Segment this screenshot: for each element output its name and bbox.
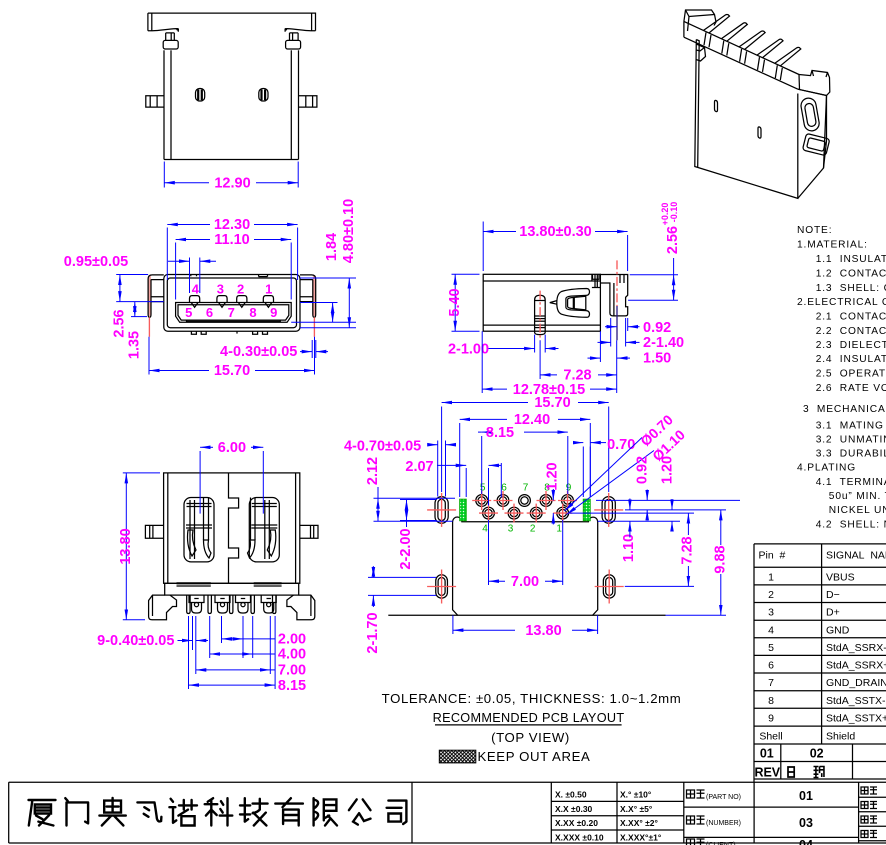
dimension 7.00 pcb [488, 520, 490, 585]
svg-text:2.2 CONTACT CURRENT: 1.8A MAX: 2.2 CONTACT CURRENT: 1.8A MAX. [816, 326, 886, 337]
svg-text:2.5 OPERATING TEMP.: -40°C~+8: 2.5 OPERATING TEMP.: -40°C~+85°C [816, 368, 886, 379]
side view: latch left beak [550, 301, 557, 305]
pcb layout: mounting oval top-right [602, 497, 615, 524]
svg-text:StdA_SSRX+: StdA_SSRX+ [826, 660, 886, 672]
dimension 15.70 bottom [148, 337, 150, 375]
bottom view: base plate [165, 583, 299, 595]
part number field lines [684, 806, 859, 808]
svg-text:4-0.30±0.05: 4-0.30±0.05 [220, 344, 297, 360]
svg-text:15.70: 15.70 [534, 395, 570, 411]
dimension 1.84 right [300, 302, 338, 304]
svg-text:6: 6 [768, 660, 774, 672]
svg-text:3 MECHANICAL PERFORMANCE:: 3 MECHANICAL PERFORMANCE: [803, 404, 886, 415]
bottom view: solder feet row [189, 595, 204, 602]
pcb layout: pin hole 5 [476, 495, 488, 507]
svg-text:9: 9 [566, 483, 572, 494]
right approval column lines [859, 796, 886, 798]
svg-text:4.80±0.10: 4.80±0.10 [341, 199, 357, 263]
side view: body outline [483, 274, 600, 331]
side view: crimp post [535, 295, 546, 334]
bottom view: right side tab [300, 525, 318, 538]
front view: left leg lower red segment [148, 317, 150, 337]
side view: latch spring loop mouth and cone [585, 295, 587, 310]
pcb layout: pin hole 9 [562, 495, 574, 507]
side view: post red centerline [539, 291, 541, 341]
dimension 2-1.70 [368, 576, 436, 578]
title block bottom border [9, 842, 886, 844]
top view: left latch block [163, 40, 178, 49]
svg-text:9.88: 9.88 [712, 545, 728, 573]
svg-text:6: 6 [501, 483, 507, 494]
svg-text:3.3 DURABILITY: 1500 CYCLES: 3.3 DURABILITY: 1500 CYCLES [816, 449, 886, 460]
dimension 6.00 [199, 451, 201, 514]
svg-text:4: 4 [482, 524, 488, 535]
isometric view 3d connector [684, 10, 830, 198]
svg-text:StdA_SSTX-: StdA_SSTX- [826, 695, 886, 707]
svg-text:7: 7 [228, 305, 235, 320]
bottom view: thin terminal pins [187, 595, 190, 613]
dimension 8.15 bottom view [188, 616, 190, 689]
front view: tongue outline [176, 303, 292, 323]
dimension 7.00 bottom view [195, 650, 197, 674]
svg-text:TOLERANCE: ±0.05, THICKNESS: 1: TOLERANCE: ±0.05, THICKNESS: 1.0~1.2mm [382, 691, 682, 706]
svg-text:X.X° ±5°: X.X° ±5° [620, 804, 653, 814]
svg-text:VBUS: VBUS [826, 572, 855, 584]
svg-text:-0.10: -0.10 [669, 202, 679, 223]
svg-text:X.XXX ±0.10: X.XXX ±0.10 [555, 832, 604, 842]
svg-text:3: 3 [217, 281, 224, 296]
front view: inner shell [167, 278, 296, 328]
side view: rear leg bracket [600, 275, 627, 316]
svg-text:2-1.00: 2-1.00 [448, 342, 489, 358]
pcb layout: mounting oval bottom-right [603, 575, 615, 598]
bottom view: right wing [287, 595, 315, 620]
svg-text:6.00: 6.00 [218, 440, 246, 456]
pcb layout: pin hole 4 [483, 507, 495, 519]
svg-text:7.00: 7.00 [511, 574, 539, 590]
front view: shell bottom feet notches [191, 331, 196, 334]
svg-text:D−: D− [826, 589, 840, 601]
front view: shell top small notches [259, 275, 268, 277]
bottom view: center seam [229, 473, 239, 583]
pcb layout: pin hole 8 [540, 495, 552, 507]
svg-text:Shield: Shield [826, 730, 855, 742]
dimension 12.90 extension lines [163, 162, 165, 188]
svg-text:2.1 CONTACT RESISTANCE: 30mΩ: 2.1 CONTACT RESISTANCE: 30mΩ MAX. [816, 312, 886, 323]
svg-text:7: 7 [768, 677, 774, 689]
svg-text:(NUMBER): (NUMBER) [706, 820, 741, 827]
bottom view: left side tab [145, 525, 163, 538]
svg-text:5: 5 [185, 305, 192, 320]
svg-text:5: 5 [480, 483, 486, 494]
svg-text:7.00: 7.00 [278, 663, 306, 679]
top view: right side tab [299, 96, 317, 107]
svg-text:2: 2 [237, 281, 244, 296]
dimension 4.80±0.10 right [300, 277, 356, 279]
svg-text:RECOMMENDED PCB LAYOUT: RECOMMENDED PCB LAYOUT [433, 711, 625, 725]
svg-text:1: 1 [265, 281, 272, 296]
tolerance table lines [551, 800, 684, 802]
svg-text:X.XXX°±1°: X.XXX°±1° [620, 832, 662, 842]
svg-text:8: 8 [249, 305, 256, 320]
dimension 2-1.00 [534, 335, 536, 353]
svg-text:REV: REV [754, 766, 780, 780]
svg-text:7.28: 7.28 [680, 536, 696, 564]
svg-text:5.40: 5.40 [447, 288, 463, 316]
pcb layout: keep-out hatch right [583, 499, 590, 521]
dimension 1.50 [599, 331, 601, 362]
company name xiamen aofeinuo technology co ltd [29, 798, 407, 826]
dimension 2-2.00 [400, 499, 437, 501]
svg-text:8: 8 [768, 695, 774, 707]
svg-text:13.80: 13.80 [118, 528, 134, 564]
svg-text:2: 2 [530, 524, 536, 535]
svg-text:2.3 DIELECTRIC WITHSTANDING:: 2.3 DIELECTRIC WITHSTANDING: AC 100V [816, 340, 886, 351]
top view: mounting flange bar [148, 13, 316, 31]
bottom view: left wing [149, 595, 177, 620]
dimension 1.35 left [131, 316, 147, 318]
pcb layout: footprint outline [453, 517, 598, 615]
svg-text:GND_DRAIN: GND_DRAIN [826, 677, 886, 689]
svg-text:4-0.70±0.05: 4-0.70±0.05 [344, 439, 421, 455]
svg-text:(TOP VIEW): (TOP VIEW) [491, 730, 570, 745]
top view: left side tab [146, 96, 164, 107]
svg-text:1.20: 1.20 [545, 462, 561, 490]
svg-text:9-0.40±0.05: 9-0.40±0.05 [97, 633, 174, 649]
top view: body right stem lines [290, 50, 292, 159]
dimension 11.10 [175, 243, 177, 300]
svg-text:0.92: 0.92 [635, 456, 651, 484]
pcb layout: pin hole 7 [519, 495, 531, 507]
front view: right leg lower red segment [313, 317, 315, 337]
svg-text:3: 3 [508, 524, 514, 535]
top view: left rivet slot [196, 89, 205, 102]
svg-text:1.3 SHELL: COPPER ALLOY: 1.3 SHELL: COPPER ALLOY [816, 283, 886, 294]
svg-text:11.10: 11.10 [214, 232, 250, 248]
dimension 5.40 [452, 273, 480, 275]
svg-text:2.ELECTRICAL CHARACTERISTICS:: 2.ELECTRICAL CHARACTERISTICS: [797, 297, 886, 308]
dimension 12.40 pcb [459, 423, 461, 497]
svg-text:4: 4 [192, 281, 200, 296]
pcb layout: pin hole 2 [530, 507, 542, 519]
right approval labels [861, 787, 868, 794]
svg-text:4.00: 4.00 [278, 647, 306, 663]
svg-text:1.1 INSULATOR: LCP UL 94V-0: 1.1 INSULATOR: LCP UL 94V-0 BLACK [816, 254, 886, 265]
dimension 15.70 pcb [441, 407, 443, 493]
dimension 2.56 left [116, 274, 148, 276]
dimension 12.90 line [164, 182, 209, 184]
side view: latch spring loop outer [557, 289, 590, 318]
bottom view: left contact assembly [184, 498, 214, 562]
svg-text:9: 9 [270, 305, 277, 320]
svg-text:Shell: Shell [759, 730, 782, 742]
side view: rear leg red centerline [616, 260, 618, 306]
svg-text:4.PLATING: 4.PLATING [797, 463, 856, 474]
dimension 2.56 +0.20/-0.10 right top [630, 274, 678, 276]
dimension 13.80±0.30 [482, 222, 484, 272]
svg-text:SIGNAL NAME: SIGNAL NAME [826, 550, 886, 562]
front view: outer shell [164, 275, 300, 332]
front view: tongue inner line [178, 305, 289, 320]
svg-text:1.50: 1.50 [643, 351, 671, 367]
svg-text:2-2.00: 2-2.00 [398, 528, 414, 569]
top view: body left stem lines [163, 50, 165, 159]
svg-text:2.6 RATE VOLTAGE: DC 30V: 2.6 RATE VOLTAGE: DC 30V [816, 383, 886, 394]
svg-text:X.° ±10°: X.° ±10° [620, 790, 652, 800]
top view: left latch neck [166, 33, 175, 41]
svg-text:2.07: 2.07 [405, 459, 433, 475]
svg-text:12.40: 12.40 [514, 412, 550, 428]
svg-text:Pin #: Pin # [759, 550, 786, 562]
label pn [687, 790, 695, 798]
svg-text:50u” MIN. TIN ON SOLDER TAIL,: 50u” MIN. TIN ON SOLDER TAIL, [829, 491, 886, 502]
svg-text:X.X ±0.30: X.X ±0.30 [555, 804, 593, 814]
pcb layout: bottom line right wing extension [593, 614, 666, 616]
bottom view: body outline [164, 473, 300, 583]
svg-text:04: 04 [799, 838, 813, 845]
dimension 13.80 left [123, 472, 160, 474]
svg-text:15.70: 15.70 [214, 363, 250, 379]
svg-text:1: 1 [556, 524, 562, 535]
svg-text:13.80: 13.80 [525, 623, 561, 639]
svg-text:4: 4 [768, 624, 774, 636]
top view: flange bottom edge right piece [285, 29, 315, 32]
top view: body bottom edge [164, 159, 299, 161]
svg-text:NICKEL UNDERPLATED OVERALL: NICKEL UNDERPLATED OVERALL [829, 505, 886, 516]
company box borders [8, 782, 10, 843]
title block vertical dividers [550, 782, 552, 843]
svg-text:1.35: 1.35 [126, 331, 142, 359]
pcb layout: pin hole 3 [508, 507, 520, 519]
svg-text:0.95±0.05: 0.95±0.05 [64, 254, 128, 270]
svg-text:6: 6 [206, 305, 213, 320]
pcb layout: bottom line left wing extension [388, 614, 457, 616]
svg-text:2.4 INSULATION RESISTANCE: 10: 2.4 INSULATION RESISTANCE: 100MΩ [816, 354, 886, 365]
front view: top row contact pins 4 3 2 1 [190, 296, 200, 303]
svg-text:01: 01 [760, 747, 774, 761]
svg-text:12.30: 12.30 [214, 217, 250, 233]
svg-text:1: 1 [768, 572, 774, 584]
dimension 8.15 pcb [481, 436, 483, 494]
svg-text:02: 02 [810, 747, 824, 761]
side view: back shell edge details [591, 274, 593, 281]
svg-text:2.56: 2.56 [112, 309, 128, 337]
svg-text:2: 2 [768, 589, 774, 601]
svg-text:NOTE:: NOTE: [797, 225, 832, 236]
svg-text:2-1.70: 2-1.70 [365, 612, 381, 653]
svg-text:12.90: 12.90 [214, 175, 250, 191]
dimension 4.00 [209, 616, 211, 658]
front view: left solder leg (red highlighted) [148, 275, 151, 316]
pcb layout: mounting oval bottom-left [436, 575, 448, 598]
svg-text:4.1 TERMINAL: GOLD FLASH ON C: 4.1 TERMINAL: GOLD FLASH ON CONTACT, [816, 477, 886, 488]
svg-text:2.12: 2.12 [365, 457, 381, 485]
pcb layout: keep-out hatch left [460, 499, 467, 521]
svg-text:1.10: 1.10 [621, 534, 637, 562]
dimension 13.80 pcb [452, 615, 454, 634]
svg-text:X.XX° ±2°: X.XX° ±2° [620, 818, 659, 828]
svg-text:8.15: 8.15 [278, 678, 306, 694]
svg-text:X. ±0.50: X. ±0.50 [555, 790, 587, 800]
svg-text:9: 9 [768, 713, 774, 725]
title block top border [9, 781, 886, 783]
side view: rear leg navy overlap line [616, 306, 618, 340]
svg-text:4.2 SHELL: NICKEL PLATED: 4.2 SHELL: NICKEL PLATED [816, 520, 886, 531]
dimension 7.28 side [539, 340, 541, 379]
svg-text:X.XX ±0.20: X.XX ±0.20 [555, 818, 598, 828]
top view: flange bottom edge left piece [148, 29, 178, 32]
svg-text:2.00: 2.00 [278, 632, 306, 648]
svg-text:D+: D+ [826, 607, 840, 619]
revision row 01 02 [754, 761, 886, 763]
label number [687, 816, 695, 824]
front view: right solder leg (red highlighted) [313, 275, 316, 316]
svg-text:0.70: 0.70 [607, 437, 635, 453]
rev row date characters [788, 767, 794, 777]
svg-text:8.15: 8.15 [486, 425, 514, 441]
svg-text:1.20: 1.20 [660, 456, 676, 484]
svg-text:3.2 UNMATING FORCE: 10N MIN.: 3.2 UNMATING FORCE: 10N MIN. [816, 434, 886, 445]
svg-text:3.1 MATING FORCE: 35N MAX.: 3.1 MATING FORCE: 35N MAX. [816, 420, 886, 431]
front view: tongue bottom step [187, 320, 281, 322]
svg-text:13.80±0.30: 13.80±0.30 [519, 224, 591, 240]
svg-text:StdA_SSRX-: StdA_SSRX- [826, 642, 886, 654]
dimension 2.00 [221, 616, 223, 643]
top view: right latch neck [290, 33, 299, 41]
svg-text:GND: GND [826, 624, 850, 636]
svg-text:5: 5 [768, 642, 774, 654]
dimension 0.92 side [627, 318, 629, 331]
svg-text:3: 3 [768, 607, 774, 619]
keep out area legend swatch [439, 750, 476, 763]
svg-text:StdA_SSTX+: StdA_SSTX+ [826, 713, 886, 725]
svg-text:01: 01 [799, 789, 813, 803]
top view: right rivet slot [259, 89, 268, 102]
pcb layout: pin hole 1 [557, 507, 569, 519]
pcb layout: mounting oval top-left [435, 497, 448, 524]
leader lines diameter 0.70 and 1.10 [565, 438, 643, 512]
svg-text:1.2 CONTACT: PHOSPHOR BRONZE: 1.2 CONTACT: PHOSPHOR BRONZE [816, 269, 886, 280]
svg-text:1.84: 1.84 [324, 233, 340, 261]
dimension 12.78±0.15 [481, 331, 483, 393]
top view: right latch block [286, 40, 301, 49]
dimension 12.30 [166, 228, 168, 281]
pcb layout: pin hole 6 [497, 495, 509, 507]
svg-text:(PART NO): (PART NO) [706, 794, 741, 801]
bottom view: right contact assembly [249, 498, 279, 562]
svg-text:7: 7 [523, 483, 529, 494]
svg-text:1.MATERIAL:: 1.MATERIAL: [797, 239, 868, 250]
label client [687, 839, 695, 845]
svg-text:2.56: 2.56 [665, 226, 681, 254]
pin table frame [754, 543, 886, 545]
dimension 2-1.40 [610, 318, 612, 347]
svg-text:KEEP OUT AREA: KEEP OUT AREA [478, 749, 591, 764]
svg-text:0.92: 0.92 [643, 320, 671, 336]
svg-text:2-1.40: 2-1.40 [643, 335, 684, 351]
svg-text:03: 03 [799, 816, 813, 830]
